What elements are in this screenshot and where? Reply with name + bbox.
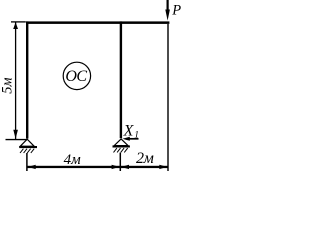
right pinned support: [113, 139, 130, 153]
left column: [26, 21, 28, 138]
tick top: [11, 21, 26, 23]
beam (top horizontal member): [26, 21, 169, 24]
svg-text:X: X: [123, 122, 135, 139]
wire: extension line from load point P down to dimension line: [167, 24, 169, 171]
dimension 4м and 2м: bottom dimension line: [27, 165, 168, 169]
wire: left extension line below support: [26, 153, 28, 171]
force X1 arrow (points left toward support): [122, 137, 138, 141]
node OC (circle with label): [63, 62, 90, 89]
tick bottom: [6, 139, 28, 141]
svg-text:5м: 5м: [0, 78, 16, 94]
wire: middle extension line below right support: [119, 153, 121, 171]
svg-text:2м: 2м: [136, 150, 154, 167]
svg-text:4м: 4м: [64, 152, 82, 168]
load P arrow: [165, 0, 170, 21]
right column: [120, 21, 122, 138]
svg-text:P: P: [171, 3, 181, 19]
svg-text:ОС: ОС: [65, 68, 87, 85]
left pinned support: [19, 139, 37, 153]
dimension 5м: vertical dimension line: [6, 22, 28, 140]
svg-text:1: 1: [134, 130, 139, 140]
